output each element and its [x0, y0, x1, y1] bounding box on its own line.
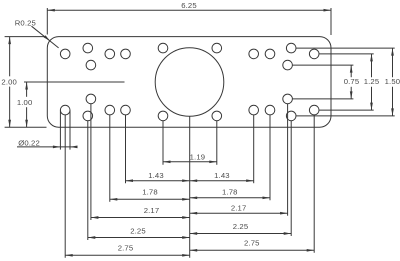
- svg-text:2.17: 2.17: [231, 204, 247, 213]
- dimension 6.25 extension line right: [330, 8, 332, 35]
- dimension 2.75 right line: [190, 249, 315, 251]
- center hole diameter 1.50: [155, 48, 224, 117]
- hole diameter 0.22 leader line: [17, 146, 74, 148]
- dimension 2.25 right arrow outer: [284, 232, 292, 235]
- dimension 2.00 extension line top: [5, 36, 47, 38]
- dimension 2.25 right line: [190, 233, 292, 235]
- dimension 2.25 right extension line: [290, 121, 292, 237]
- dimension 6.25 extension line left: [46, 8, 48, 35]
- dimension 2.75 left arrow center: [182, 254, 190, 257]
- dimension 1.25 extension line bottom: [319, 109, 374, 111]
- svg-text:1.43: 1.43: [148, 171, 164, 180]
- dimension 2.00 line upper: [9, 37, 11, 77]
- dimension 0.75 extension line bottom: [292, 98, 353, 100]
- dimension 1.00 line lower: [26, 107, 28, 127]
- svg-text:1.78: 1.78: [222, 187, 238, 196]
- dimension 2.25 left line: [88, 237, 190, 239]
- dimension 1.43 left arrow center: [182, 179, 190, 182]
- hole diameter 0.22 tangent extension right: [69, 111, 71, 150]
- dimension 2.17 right extension line: [287, 104, 289, 216]
- dimension 2.17 left arrow outer: [91, 216, 99, 219]
- svg-text:2.75: 2.75: [118, 243, 134, 252]
- dimension 2.75 right extension line: [313, 115, 315, 253]
- svg-text:1.25: 1.25: [364, 77, 380, 86]
- dimension 1.78 left arrow center: [182, 198, 190, 201]
- hole H21 dia 0.22 at (87.8,115.9): [83, 111, 93, 121]
- dimension 1.19 extension line right: [216, 121, 218, 165]
- dimension 1.25 arrow top: [370, 54, 373, 62]
- svg-text:1.43: 1.43: [214, 171, 230, 180]
- hole H2 dia 0.22 at (163.0,48.1): [158, 43, 168, 53]
- dimension 2.75 right arrow center: [190, 249, 198, 252]
- svg-text:0.75: 0.75: [344, 77, 360, 86]
- dimension 1.43 right extension line: [253, 115, 255, 184]
- hole H19 dia 0.22 at (270.0,110.1): [265, 105, 275, 115]
- hole H5 dia 0.22 at (65.2,53.9): [60, 49, 70, 59]
- dimension 0.75 line lower: [350, 87, 352, 99]
- dimension 2.17 left extension line: [90, 104, 92, 221]
- dimension 1.50 arrow bottom: [391, 108, 394, 116]
- hole H18 dia 0.22 at (253.7,110.1): [249, 105, 259, 115]
- dimension 1.00 line upper: [26, 82, 28, 97]
- dimension 2.75 left extension line: [64, 115, 66, 258]
- svg-text:2.17: 2.17: [144, 206, 160, 215]
- dimension 1.25 extension line top: [319, 53, 374, 55]
- dimension 6.25 line: [47, 9, 331, 11]
- dimension 2.25 left arrow center: [182, 236, 190, 239]
- hole diameter 0.22 arrow left: [53, 146, 61, 149]
- svg-text:6.25: 6.25: [181, 1, 197, 10]
- dimension 1.50 extension line bottom: [296, 115, 395, 117]
- dimension 1.78 left line: [110, 198, 190, 200]
- dimension 2.75 right arrow outer: [307, 249, 315, 252]
- dimension 1.43 left line: [126, 180, 190, 182]
- dimension 0.75 extension line top: [292, 64, 353, 66]
- dimension 2.75 left line: [65, 254, 190, 256]
- centerline extension for 1.00: [24, 81, 125, 83]
- dimension 1.78 right arrow outer: [263, 196, 271, 199]
- hole H22 dia 0.22 at (163.0,115.9): [158, 111, 168, 121]
- dimension 2.17 right line: [190, 212, 288, 214]
- dimension 2.25 left extension line: [87, 121, 89, 241]
- svg-text:1.78: 1.78: [142, 188, 158, 197]
- dimension 0.75 line upper: [350, 65, 352, 77]
- dimension 1.19 extension line left: [162, 121, 164, 165]
- hole H20 dia 0.22 at (314.2,110.1): [309, 105, 319, 115]
- svg-text:1.00: 1.00: [17, 98, 33, 107]
- hole H16 dia 0.22 at (109.8,110.1): [105, 105, 115, 115]
- dimension 2.17 right arrow outer: [280, 212, 288, 215]
- leader R0.25: [32, 26, 59, 48]
- dimension 1.78 right arrow center: [190, 196, 198, 199]
- hole H1 dia 0.22 at (87.8,48.1): [83, 43, 93, 53]
- hole H10 dia 0.22 at (314.2,53.9): [309, 49, 319, 59]
- dimension 2.25 left arrow outer: [88, 236, 96, 239]
- dimension 1.78 left extension line: [109, 115, 111, 202]
- svg-text:2.25: 2.25: [233, 222, 249, 231]
- dimension 2.17 left arrow center: [182, 216, 190, 219]
- svg-text:Ø0.22: Ø0.22: [18, 139, 40, 148]
- dimension 0.75 arrow bottom: [350, 91, 353, 99]
- dimension 1.25 line upper: [371, 54, 373, 77]
- dimension 2.00 line lower: [9, 87, 11, 128]
- hole H15 dia 0.22 at (65.2,110.1): [60, 105, 70, 115]
- dimension 1.78 right extension line: [269, 115, 271, 201]
- svg-text:R0.25: R0.25: [15, 19, 36, 28]
- dimension 1.78 left arrow outer: [110, 198, 118, 201]
- dimension 1.19 line: [163, 161, 217, 163]
- center reference extension line: [189, 116, 191, 257]
- hole H17 dia 0.22 at (125.5,110.1): [121, 105, 131, 115]
- hole H23 dia 0.22 at (216.8,115.9): [212, 111, 222, 121]
- svg-text:1.50: 1.50: [385, 77, 400, 86]
- hole H4 dia 0.22 at (291.2,48.1): [286, 43, 296, 53]
- dimension 2.75 left arrow outer: [65, 254, 73, 257]
- dimension 6.25 arrow left: [47, 9, 55, 12]
- hole H14 dia 0.22 at (287.6,98.9): [283, 94, 293, 104]
- dimension 6.25 arrow right: [324, 9, 332, 12]
- dimension 1.00 arrow top: [25, 82, 28, 90]
- dimension 2.00 arrow top: [8, 37, 11, 45]
- svg-text:2.75: 2.75: [244, 239, 260, 248]
- dimension 1.50 line lower: [392, 87, 394, 116]
- plate outline 6.25 x 2.00 rounded rectangle: [47, 37, 331, 128]
- svg-text:1.19: 1.19: [190, 152, 206, 161]
- hole H3 dia 0.22 at (216.8,48.1): [212, 43, 222, 53]
- dimension 1.25 line lower: [371, 87, 373, 110]
- dimension 2.00 arrow bottom: [8, 120, 11, 128]
- hole diameter 0.22 tangent extension left: [59, 111, 61, 150]
- dimension 1.19 arrow right: [209, 160, 217, 163]
- dimension 1.25 arrow bottom: [370, 103, 373, 111]
- hole H12 dia 0.22 at (287.6,65.1): [283, 60, 293, 70]
- hole H6 dia 0.22 at (109.8,53.9): [105, 49, 115, 59]
- dimension 1.43 right line: [190, 180, 254, 182]
- dimension 1.43 left arrow outer: [126, 179, 134, 182]
- dimension 1.43 right arrow outer: [246, 179, 254, 182]
- svg-text:2.25: 2.25: [130, 227, 146, 236]
- dimension 1.78 right line: [190, 197, 270, 199]
- dimension 1.50 arrow top: [391, 48, 394, 56]
- hole H13 dia 0.22 at (90.9,98.9): [86, 94, 96, 104]
- dimension 1.00 arrow bottom: [25, 120, 28, 128]
- dimension 2.17 left line: [91, 217, 190, 219]
- dimension 1.43 right arrow center: [190, 179, 198, 182]
- hole diameter 0.22 arrow right: [70, 146, 78, 149]
- hole H11 dia 0.22 at (90.9,65.1): [86, 60, 96, 70]
- hole H9 dia 0.22 at (270.0,53.9): [265, 49, 275, 59]
- dimension 2.17 right arrow center: [190, 212, 198, 215]
- leader R0.25 arrow: [44, 35, 51, 41]
- hole H24 dia 0.22 at (291.2,115.9): [286, 111, 296, 121]
- dimension 1.50 extension line top: [296, 47, 395, 49]
- dimension 0.75 arrow top: [350, 65, 353, 73]
- svg-text:2.00: 2.00: [1, 77, 17, 86]
- dimension 2.00 extension line bottom: [5, 126, 47, 128]
- hole H8 dia 0.22 at (253.7,53.9): [249, 49, 259, 59]
- hole H7 dia 0.22 at (125.5,53.9): [121, 49, 131, 59]
- dimension 2.25 right arrow center: [190, 232, 198, 235]
- dimension 1.19 arrow left: [163, 160, 171, 163]
- dimension 1.43 left extension line: [125, 115, 127, 184]
- dimension 1.50 line upper: [392, 48, 394, 77]
